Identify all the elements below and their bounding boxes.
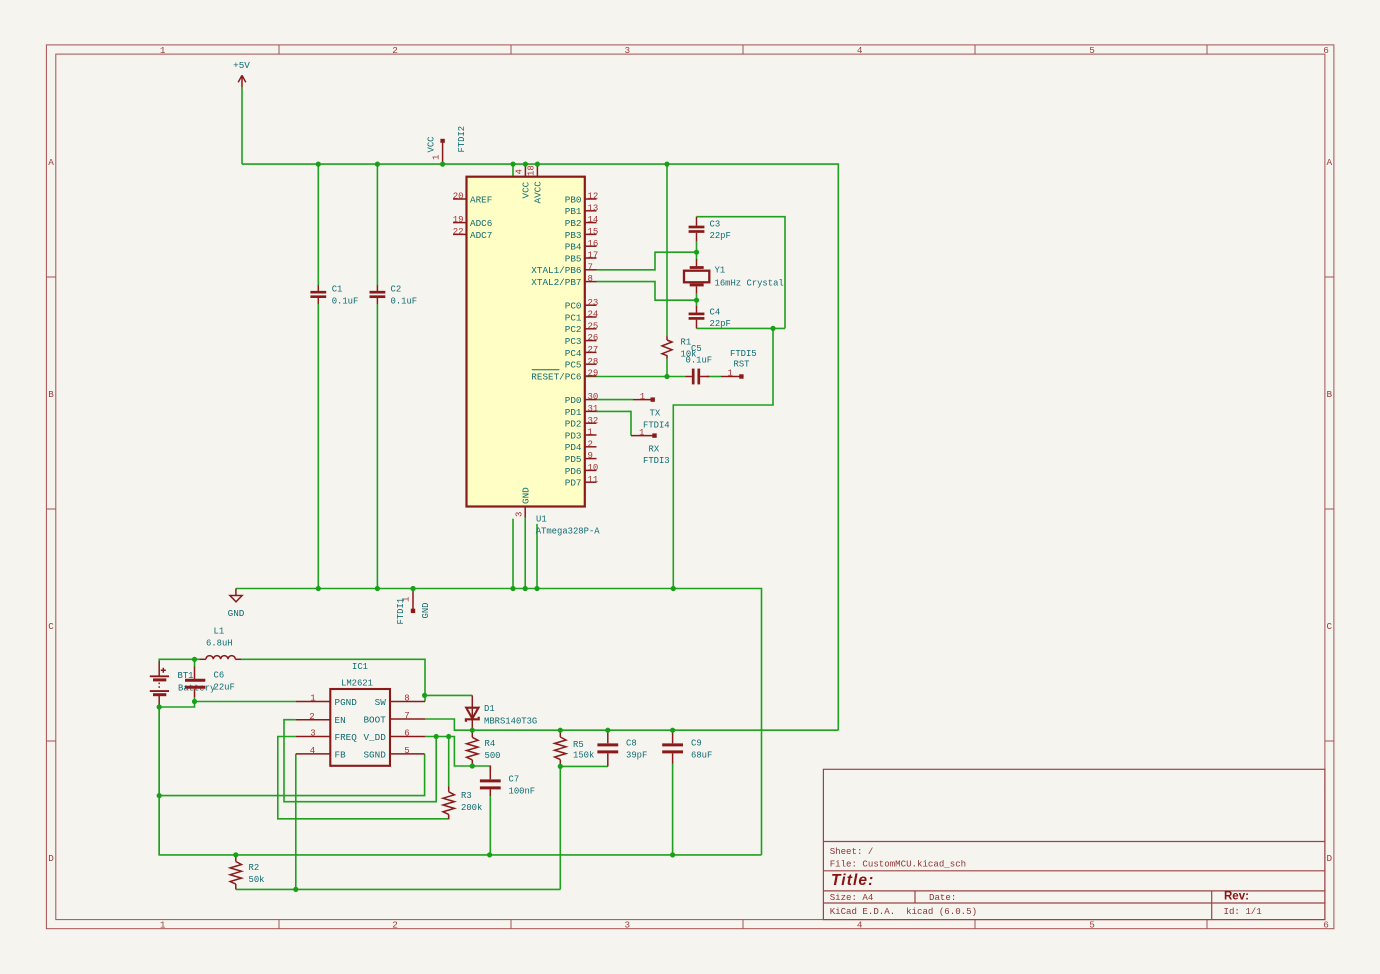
ground GND: [228, 589, 245, 620]
svg-text:22: 22: [453, 227, 464, 237]
svg-text:GND: GND: [521, 487, 532, 504]
capacitor C6: [185, 659, 235, 697]
svg-text:R2: R2: [249, 863, 260, 873]
svg-text:U1: U1: [536, 515, 547, 525]
svg-text:1: 1: [310, 694, 315, 704]
svg-text:PC4: PC4: [565, 348, 582, 359]
svg-text:C6: C6: [214, 671, 225, 681]
IC1 pin 5 SGND: [363, 746, 424, 760]
svg-text:0.1uF: 0.1uF: [391, 296, 418, 306]
svg-text:V_DD: V_DD: [363, 732, 386, 743]
svg-text:24: 24: [588, 310, 599, 320]
svg-text:C5: C5: [691, 344, 702, 354]
svg-text:17: 17: [588, 251, 599, 261]
svg-text:2: 2: [392, 45, 398, 56]
svg-text:14: 14: [588, 215, 599, 225]
wire BOOT loop: [425, 719, 472, 730]
svg-text:6: 6: [1323, 45, 1329, 56]
resistor R1: [662, 336, 696, 359]
svg-text:1: 1: [639, 428, 644, 438]
svg-text:4: 4: [857, 920, 863, 931]
svg-text:8: 8: [404, 694, 409, 704]
svg-text:11: 11: [588, 475, 599, 485]
svg-text:PD6: PD6: [565, 466, 582, 477]
TITLEBLOCK: [823, 769, 1325, 919]
wire RESET to RST pin: [707, 376, 722, 378]
capacitor C9: [662, 730, 712, 763]
svg-text:D: D: [1327, 853, 1333, 864]
svg-text:29: 29: [588, 369, 599, 379]
inductor L1: [195, 626, 242, 659]
svg-text:BOOT: BOOT: [363, 714, 386, 725]
svg-text:39pF: 39pF: [626, 751, 647, 761]
IC1 pin 4 FB: [296, 746, 346, 760]
svg-text:A: A: [1327, 157, 1333, 168]
wire crystal top loop: [697, 217, 786, 329]
svg-text:PC5: PC5: [565, 360, 582, 371]
wire PD1: [597, 411, 632, 435]
wire C6 to battery neg: [159, 702, 194, 708]
svg-text:FTDI2: FTDI2: [457, 126, 467, 153]
svg-text:28: 28: [588, 357, 599, 367]
capacitor C5: [686, 344, 713, 385]
svg-text:GND: GND: [228, 608, 245, 619]
svg-text:D: D: [48, 853, 54, 864]
svg-text:16: 16: [588, 239, 599, 249]
svg-text:1: 1: [432, 155, 442, 160]
svg-text:19: 19: [453, 215, 464, 225]
svg-text:200k: 200k: [461, 803, 482, 813]
svg-text:26: 26: [588, 333, 599, 343]
IC1 pin 6 V_DD: [363, 729, 425, 743]
wire VDD row: [425, 737, 490, 773]
MCU U1 right pins: [531, 192, 598, 489]
wire MCU GND pin3: [524, 518, 526, 589]
svg-text:LM2621: LM2621: [341, 679, 373, 689]
svg-text:2: 2: [309, 712, 314, 722]
svg-text:4: 4: [515, 169, 525, 174]
svg-text:PC0: PC0: [565, 301, 582, 312]
svg-text:Title:: Title:: [831, 872, 874, 889]
connector FTDI3 RX pin 1: [631, 428, 670, 466]
svg-text:5: 5: [404, 746, 409, 756]
svg-text:20: 20: [453, 192, 464, 202]
svg-text:9: 9: [588, 451, 593, 461]
svg-text:File: CustomMCU.kicad_sch: File: CustomMCU.kicad_sch: [830, 859, 966, 870]
svg-text:FTDI1: FTDI1: [396, 598, 406, 625]
battery BT1: [150, 661, 216, 707]
svg-text:1: 1: [160, 45, 166, 56]
svg-text:RST: RST: [734, 360, 750, 370]
svg-text:12: 12: [588, 192, 599, 202]
svg-text:Id: 1/1: Id: 1/1: [1224, 906, 1263, 917]
wire R3 top to VDD: [448, 737, 450, 787]
svg-text:1: 1: [588, 428, 593, 438]
svg-text:3: 3: [310, 729, 315, 739]
wire R1 top: [666, 164, 668, 336]
svg-text:FTDI3: FTDI3: [643, 456, 670, 466]
svg-text:7: 7: [404, 711, 409, 721]
svg-text:3: 3: [625, 45, 631, 56]
IC1 pin 1 PGND: [296, 694, 357, 708]
resistor R4: [467, 730, 501, 766]
IC1 pin 7 BOOT: [363, 711, 425, 725]
svg-text:ADC6: ADC6: [470, 218, 492, 229]
svg-text:ATmega328P-A: ATmega328P-A: [536, 527, 601, 537]
svg-text:AREF: AREF: [470, 194, 492, 205]
svg-text:2: 2: [392, 920, 398, 931]
svg-text:PB5: PB5: [565, 253, 582, 264]
svg-text:PD4: PD4: [565, 442, 582, 453]
svg-text:PB4: PB4: [565, 242, 582, 253]
svg-text:1: 1: [728, 369, 733, 379]
svg-text:2: 2: [588, 439, 593, 449]
svg-text:Date:: Date:: [929, 892, 956, 903]
svg-text:VCC: VCC: [427, 137, 437, 153]
svg-text:150k: 150k: [573, 751, 594, 761]
svg-text:PC3: PC3: [565, 336, 582, 347]
wire C1 top: [317, 164, 319, 285]
wire FREQ to R3: [278, 737, 449, 819]
svg-text:C1: C1: [332, 285, 343, 295]
MCU U1 reference labels: [536, 515, 601, 537]
wire crystal bottom: [697, 327, 786, 329]
crystal Y1: [684, 252, 784, 300]
wire output rail: [472, 729, 838, 731]
capacitor C8: [597, 730, 647, 766]
wire C9 bottom: [672, 763, 674, 855]
wire RESET row: [585, 376, 686, 378]
wire L1 to SW: [241, 659, 425, 701]
svg-text:VCC: VCC: [521, 181, 532, 198]
svg-text:FB: FB: [335, 749, 347, 760]
svg-text:5: 5: [1089, 45, 1095, 56]
svg-text:25: 25: [588, 321, 599, 331]
svg-text:GND: GND: [421, 603, 431, 619]
svg-text:C9: C9: [691, 739, 702, 749]
svg-text:FREQ: FREQ: [335, 732, 358, 743]
svg-text:XTAL2/PB7: XTAL2/PB7: [531, 277, 581, 288]
wire battery neg drop: [158, 707, 160, 855]
svg-text:22pF: 22pF: [710, 231, 731, 241]
wire MCU GND pin21: [536, 524, 538, 589]
IC1 pin 2 EN: [296, 712, 346, 726]
svg-text:Y1: Y1: [715, 266, 726, 276]
svg-text:ADC7: ADC7: [470, 230, 492, 241]
svg-text:B: B: [48, 389, 54, 400]
svg-text:8: 8: [588, 274, 593, 284]
svg-text:PB1: PB1: [565, 206, 582, 217]
svg-text:PGND: PGND: [335, 697, 358, 708]
wire XTAL1: [597, 252, 697, 270]
wire MCU VCC pin6 stub: [512, 164, 514, 177]
MCU U1 left pins AREF ADC6 ADC7: [453, 192, 493, 241]
capacitor C7: [480, 766, 535, 796]
MCU U1 top pins VCC 4 / AVCC 18: [515, 165, 544, 204]
svg-text:SGND: SGND: [363, 749, 386, 760]
svg-text:RESET/PC6: RESET/PC6: [531, 371, 581, 382]
svg-text:15: 15: [588, 227, 599, 237]
IC1 pin 3 FREQ: [296, 729, 357, 743]
svg-text:PD5: PD5: [565, 454, 582, 465]
svg-text:PC2: PC2: [565, 324, 582, 335]
connector FTDI2 VCC pin 1: [427, 126, 468, 164]
svg-text:22pF: 22pF: [710, 319, 731, 329]
svg-text:30: 30: [588, 392, 599, 402]
svg-text:AVCC: AVCC: [533, 181, 544, 204]
svg-text:C3: C3: [710, 220, 721, 230]
svg-text:EN: EN: [335, 715, 346, 726]
svg-text:13: 13: [588, 203, 599, 213]
wire R1 bottom: [666, 359, 668, 377]
wire VCC top rail: [242, 164, 838, 730]
connector FTDI5 RST pin 1: [721, 349, 757, 379]
IC1 pin 8 SW: [375, 694, 425, 708]
svg-text:31: 31: [588, 404, 599, 414]
wire C7 bottom: [489, 796, 491, 855]
resistor R5: [555, 730, 595, 766]
svg-text:C7: C7: [509, 774, 520, 784]
svg-text:10: 10: [588, 463, 599, 473]
svg-text:PC1: PC1: [565, 312, 582, 323]
IC U IC1 LM2621 body: [330, 662, 390, 766]
svg-text:C8: C8: [626, 739, 637, 749]
resistor R3: [443, 787, 482, 819]
svg-text:B: B: [1327, 389, 1333, 400]
svg-text:PB3: PB3: [565, 230, 582, 241]
capacitor C3: [689, 217, 731, 253]
svg-text:C4: C4: [710, 307, 721, 317]
svg-text:22uF: 22uF: [214, 683, 235, 693]
svg-text:7: 7: [588, 262, 593, 272]
wire XTAL2: [597, 282, 697, 301]
wire R5 bottom to C8: [560, 765, 608, 767]
wire C6 bottom to PGND: [195, 697, 296, 702]
svg-text:6.8uH: 6.8uH: [206, 638, 233, 648]
svg-text:4: 4: [310, 746, 315, 756]
svg-text:PD3: PD3: [565, 430, 582, 441]
svg-text:MBRS140T3G: MBRS140T3G: [484, 716, 537, 726]
svg-text:A: A: [48, 157, 54, 168]
svg-text:R3: R3: [461, 791, 472, 801]
svg-text:+5V: +5V: [233, 60, 250, 71]
svg-text:PB2: PB2: [565, 218, 582, 229]
svg-text:500: 500: [485, 751, 501, 761]
svg-text:Rev:: Rev:: [1224, 891, 1249, 903]
svg-text:FTDI4: FTDI4: [643, 421, 670, 431]
svg-text:16mHz Crystal: 16mHz Crystal: [715, 279, 784, 289]
capacitor C1: [310, 285, 358, 307]
svg-text:RX: RX: [649, 445, 660, 455]
svg-text:R1: R1: [681, 338, 692, 348]
connector FTDI1 GND pin 1: [396, 589, 431, 625]
wire GND rail: [236, 589, 762, 855]
wire battery bottom: [159, 707, 761, 855]
svg-text:KiCad E.D.A. kicad (6.0.5): KiCad E.D.A. kicad (6.0.5): [830, 906, 977, 917]
svg-text:PD0: PD0: [565, 395, 582, 406]
op-amp U1 body (MCU ATmega328P-A): [467, 177, 585, 507]
svg-text:3: 3: [625, 920, 631, 931]
svg-text:0.1uF: 0.1uF: [686, 355, 713, 365]
svg-text:PB0: PB0: [565, 194, 582, 205]
wire FB vertical: [295, 754, 297, 890]
svg-text:R4: R4: [485, 739, 496, 749]
svg-text:32: 32: [588, 416, 599, 426]
svg-text:100nF: 100nF: [509, 786, 536, 796]
wire crystal gnd drop: [673, 328, 773, 588]
wire PD0: [597, 399, 634, 401]
svg-text:C: C: [1327, 621, 1333, 632]
wire C2 top: [376, 164, 378, 285]
power +5V: [233, 60, 250, 87]
wire EN loop: [284, 720, 436, 802]
MCU U1 bottom pin GND 3: [515, 487, 532, 518]
svg-text:1: 1: [640, 392, 645, 402]
wire C2 bottom: [376, 304, 378, 589]
svg-text:0.1uF: 0.1uF: [332, 296, 359, 306]
svg-text:50k: 50k: [249, 875, 265, 885]
svg-text:23: 23: [588, 298, 599, 308]
svg-text:Sheet: /: Sheet: /: [830, 846, 874, 857]
svg-text:18: 18: [527, 165, 537, 176]
diode D1 MBRS140T3G: [466, 695, 537, 733]
wire battery top to L1: [159, 659, 194, 661]
svg-text:PD1: PD1: [565, 407, 582, 418]
svg-text:L1: L1: [214, 626, 225, 636]
svg-text:C: C: [48, 621, 54, 632]
svg-text:PD7: PD7: [565, 478, 582, 489]
connector FTDI4 TX pin 1: [633, 392, 670, 431]
svg-text:6: 6: [1323, 920, 1329, 931]
wire SW to D1: [425, 694, 472, 696]
svg-text:Size: A4: Size: A4: [830, 892, 874, 903]
svg-text:5: 5: [1089, 920, 1095, 931]
svg-text:27: 27: [588, 345, 599, 355]
svg-text:4: 4: [857, 45, 863, 56]
svg-text:1: 1: [160, 920, 166, 931]
svg-text:D1: D1: [484, 704, 495, 714]
svg-text:XTAL1/PB6: XTAL1/PB6: [531, 265, 581, 276]
wire +5V stem: [241, 87, 243, 164]
svg-text:TX: TX: [650, 409, 661, 419]
svg-text:68uF: 68uF: [691, 751, 712, 761]
svg-text:PD2: PD2: [565, 419, 582, 430]
svg-text:IC1: IC1: [352, 662, 368, 672]
svg-text:R5: R5: [573, 740, 584, 750]
capacitor C2: [370, 285, 418, 307]
capacitor C4: [689, 300, 731, 329]
wire FB divider drop: [559, 766, 561, 889]
wire C1 bottom: [317, 304, 319, 589]
wire R2 bottom rail: [236, 888, 561, 890]
svg-text:C2: C2: [391, 285, 402, 295]
svg-text:6: 6: [404, 729, 409, 739]
svg-text:3: 3: [515, 512, 525, 517]
svg-text:SW: SW: [375, 697, 387, 708]
resistor R2: [230, 855, 264, 890]
svg-text:FTDI5: FTDI5: [730, 349, 757, 359]
wire SGND to battery neg: [159, 754, 424, 796]
wire MCU GND pin5: [512, 519, 514, 589]
